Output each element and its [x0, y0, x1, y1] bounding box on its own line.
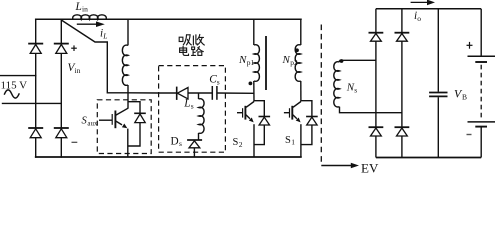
svg-text:N: N [282, 54, 291, 66]
svg-text:D: D [171, 135, 179, 147]
svg-text:s: s [191, 102, 194, 111]
svg-text:S: S [285, 135, 291, 146]
svg-text:L: L [102, 31, 107, 40]
svg-text:1: 1 [291, 138, 295, 147]
svg-text:in: in [75, 66, 81, 75]
svg-text:p2: p2 [290, 58, 298, 67]
svg-text:in: in [82, 5, 88, 14]
svg-text:s: s [217, 77, 220, 86]
svg-text:L: L [75, 1, 82, 13]
svg-text:p1: p1 [247, 58, 255, 67]
svg-text:EV: EV [361, 160, 379, 173]
svg-text:2: 2 [239, 140, 243, 149]
svg-text:B: B [462, 92, 467, 101]
svg-text:o: o [417, 14, 421, 23]
svg-text:s: s [354, 85, 357, 94]
svg-text:S: S [233, 137, 239, 148]
svg-text:N: N [238, 54, 247, 66]
svg-text:aux: aux [87, 119, 98, 127]
svg-text:115 V: 115 V [1, 80, 28, 92]
svg-text:s: s [179, 139, 182, 148]
svg-text:L: L [183, 98, 190, 110]
